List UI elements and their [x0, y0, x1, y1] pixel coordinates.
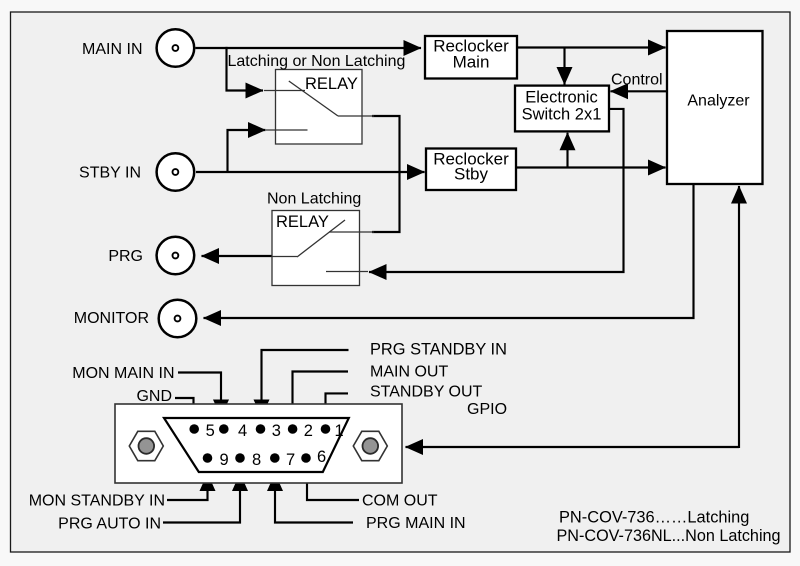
svg-text:Non Latching: Non Latching [267, 191, 361, 208]
svg-text:MON STANDBY IN: MON STANDBY IN [29, 493, 165, 510]
svg-text:Stby: Stby [454, 165, 489, 184]
svg-text:GND: GND [136, 388, 172, 405]
svg-text:1: 1 [335, 422, 344, 440]
svg-text:GPIO: GPIO [467, 401, 507, 418]
svg-text:Electronic: Electronic [525, 89, 597, 107]
svg-text:5: 5 [206, 422, 215, 440]
svg-text:Control: Control [611, 72, 663, 89]
svg-text:MAIN OUT: MAIN OUT [370, 364, 448, 381]
svg-text:3: 3 [272, 422, 281, 440]
svg-text:6: 6 [317, 448, 326, 466]
svg-text:8: 8 [252, 451, 261, 469]
svg-text:RELAY: RELAY [305, 75, 358, 93]
svg-text:MONITOR: MONITOR [74, 310, 149, 327]
svg-text:7: 7 [286, 451, 295, 469]
svg-text:PN-COV-736……Latching: PN-COV-736……Latching [559, 509, 749, 527]
svg-text:Analyzer: Analyzer [687, 93, 750, 110]
svg-text:PRG AUTO IN: PRG AUTO IN [58, 516, 161, 533]
svg-text:Main: Main [453, 53, 490, 72]
svg-text:PN-COV-736NL...Non Latching: PN-COV-736NL...Non Latching [557, 527, 781, 545]
svg-text:PRG STANDBY IN: PRG STANDBY IN [370, 341, 507, 359]
svg-text:STANDBY OUT: STANDBY OUT [370, 384, 483, 401]
svg-text:PRG: PRG [108, 248, 143, 265]
svg-text:COM OUT: COM OUT [362, 493, 438, 510]
svg-text:2: 2 [304, 422, 313, 440]
svg-text:9: 9 [220, 451, 229, 469]
svg-text:Switch 2x1: Switch 2x1 [522, 106, 602, 124]
svg-text:MON MAIN IN: MON MAIN IN [72, 365, 174, 382]
svg-text:4: 4 [238, 422, 247, 440]
svg-text:Latching or Non Latching: Latching or Non Latching [228, 53, 406, 70]
svg-text:PRG MAIN IN: PRG MAIN IN [366, 515, 466, 532]
svg-text:MAIN IN: MAIN IN [82, 41, 142, 58]
svg-text:RELAY: RELAY [276, 213, 329, 231]
svg-text:STBY IN: STBY IN [79, 165, 141, 182]
